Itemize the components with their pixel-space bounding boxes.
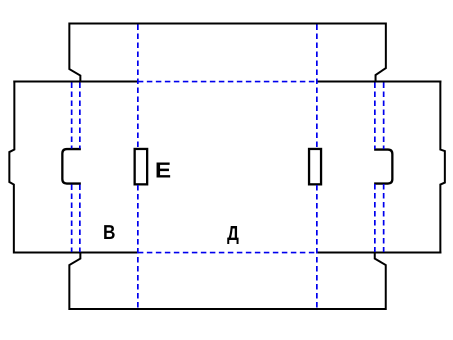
fold line vertical right inner lower (316, 185, 318, 308)
main panel bottom edge left solid segment (13, 252, 138, 254)
fold line vertical left inner upper (137, 25, 139, 149)
main panel bottom edge right solid segment (317, 252, 442, 254)
fold line horizontal top (138, 81, 317, 83)
fold line horizontal bottom (138, 252, 317, 254)
label D (227, 226, 238, 244)
left handle bracket cut (62, 149, 81, 184)
main panel right edge with tab (440, 81, 445, 254)
main panel top edge right solid segment (317, 81, 442, 83)
fold line pair left outer upper (71, 83, 73, 149)
right handle bracket cut (374, 150, 392, 184)
fold line pair left inner lower (79, 185, 81, 253)
fold line pair right outer lower (383, 184, 385, 252)
fold line pair right inner lower (374, 184, 376, 252)
bottom flap outline (69, 253, 385, 309)
fold line vertical left inner lower (137, 185, 139, 308)
right lock slot (309, 149, 321, 184)
fold line pair right inner upper (374, 83, 376, 150)
label E (157, 162, 171, 177)
fold line vertical right inner upper (316, 25, 318, 149)
fold line pair right outer upper (383, 83, 385, 150)
main panel left edge with tab (9, 81, 14, 254)
top flap outline (69, 24, 386, 82)
fold line pair left outer lower (71, 185, 73, 253)
left lock slot (135, 149, 148, 184)
label V (104, 225, 115, 239)
main panel top edge left solid segment (13, 81, 138, 83)
fold line pair left inner upper (79, 83, 81, 149)
